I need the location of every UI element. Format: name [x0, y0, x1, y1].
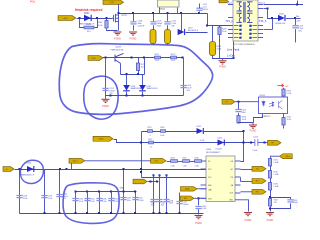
resistor R221	[148, 130, 153, 133]
svg-text:51.0k: 51.0k	[287, 93, 292, 95]
wire C236 column	[99, 192, 101, 214]
svg-text:PGND: PGND	[130, 39, 137, 41]
node O	[110, 95, 112, 97]
wire secondary top to right edge	[264, 4, 304, 6]
net L+Opt	[227, 53, 235, 57]
label D214	[27, 162, 33, 164]
ground PGND inner	[105, 96, 107, 99]
svg-text:D206: D206	[279, 13, 285, 15]
port P207	[268, 140, 282, 145]
value 10.0k	[160, 135, 164, 137]
label R231 1.00M	[273, 160, 278, 164]
svg-text:1.00k: 1.00k	[183, 165, 187, 167]
label C229 4.7uF	[48, 196, 53, 200]
svg-text:16: 16	[250, 33, 252, 35]
wire rail corner down	[207, 14, 209, 26]
svg-text:TX4_p: TX4_p	[225, 20, 233, 23]
zener diode D209	[139, 85, 146, 91]
diode D207	[178, 29, 185, 35]
svg-text:PGND: PGND	[245, 220, 252, 222]
label C214 2.2uF 50V	[187, 85, 193, 92]
label D207 B4148-13-F	[188, 27, 199, 32]
label R227	[148, 139, 152, 141]
wire port to D201 network	[77, 18, 113, 20]
svg-text:Nsp1: Nsp1	[227, 3, 233, 5]
node AG	[269, 196, 271, 198]
label R213 31.6k	[217, 46, 222, 51]
label R233 1.00M	[273, 184, 278, 188]
svg-text:24V: 24V	[297, 21, 301, 23]
label Q202	[122, 14, 128, 16]
svg-text:10.0k: 10.0k	[160, 135, 164, 137]
node X	[66, 168, 68, 170]
capacitor C240	[150, 200, 156, 202]
capacitor C229	[41, 196, 47, 198]
node P210a	[150, 181, 152, 183]
resistor R231	[268, 159, 271, 167]
svg-text:D201: D201	[84, 13, 90, 15]
label R211	[155, 54, 159, 56]
wire D206 cathode to node F	[286, 18, 301, 20]
value 1.00k b	[183, 165, 187, 167]
svg-text:50V: 50V	[187, 90, 191, 92]
wire R225 to U203 pin4	[283, 97, 285, 98]
svg-text:SMAZ24-13-F: SMAZ24-13-F	[147, 87, 159, 90]
wire C238 column	[166, 175, 168, 213]
label R247 12k	[274, 200, 278, 204]
svg-text:R229: R229	[183, 158, 187, 160]
capacitor C237	[108, 199, 114, 201]
wire R207 bottom	[153, 44, 155, 46]
svg-text:22pF: 22pF	[169, 203, 173, 205]
svg-text:24Vc: 24Vc	[91, 58, 96, 60]
node E	[267, 8, 269, 10]
wire scl segs	[167, 161, 171, 163]
ground PGND under U204	[244, 213, 252, 216]
wire to C246	[271, 198, 291, 200]
label C240 100n	[151, 202, 155, 206]
label D208 MMAZ5240B	[131, 86, 142, 90]
node bank2b	[98, 212, 100, 214]
capacitor C236	[96, 199, 102, 201]
label R228	[171, 158, 175, 160]
node H	[105, 57, 107, 59]
value VOM1271	[262, 116, 272, 118]
label C208 440n 0.022uF	[138, 20, 146, 27]
wire base rail	[103, 57, 184, 59]
wire C213 bottom	[295, 29, 297, 42]
svg-text:2.2nF: 2.2nF	[253, 150, 259, 152]
wire R273 bottom	[138, 71, 140, 75]
svg-text:1.00k: 1.00k	[195, 165, 199, 167]
node bk21	[134, 191, 136, 193]
value 2.2nF	[253, 150, 259, 152]
svg-text:3.3uF: 3.3uF	[23, 198, 28, 200]
svg-text:R227: R227	[148, 139, 152, 141]
port P210 small	[133, 179, 147, 184]
wire R273 top	[138, 58, 140, 64]
resistor R212	[171, 56, 177, 59]
wire R208 bottom	[167, 44, 169, 46]
value 510	[87, 31, 91, 33]
svg-text:E41-2M: E41-2M	[216, 149, 223, 151]
node bank3t	[110, 191, 112, 193]
svg-text:D214: D214	[27, 162, 33, 164]
wire +5V to R225	[283, 88, 285, 90]
wire collector rail	[121, 74, 145, 76]
node AC	[153, 174, 155, 176]
diode D206	[278, 15, 285, 21]
svg-text:PGND: PGND	[102, 106, 109, 108]
label R229	[183, 158, 187, 160]
svg-text:In: In	[6, 169, 8, 171]
label C241 100n	[161, 202, 165, 206]
net TX4_S	[259, 20, 267, 23]
wire row VCC	[142, 177, 207, 179]
wire C246 bottom	[271, 203, 291, 208]
label C210 2.2uF 50V	[171, 20, 177, 27]
resistor R226	[161, 130, 166, 133]
capacitor C214	[180, 86, 186, 88]
wire cap bank bottom rail	[20, 213, 204, 215]
node bk20	[123, 191, 125, 193]
resistor R207 (power)	[150, 30, 156, 44]
wire P205 to U203	[235, 101, 259, 103]
U204 left pin stubs	[201, 161, 207, 198]
wire T201 right pin stubs	[258, 5, 263, 38]
U204 pin names	[208, 161, 234, 202]
label C234 4.7uF	[79, 199, 83, 203]
svg-text:510: 510	[87, 31, 91, 33]
port P215	[252, 179, 266, 184]
wire pin stub3	[240, 178, 242, 182]
capacitor C242	[195, 207, 201, 209]
svg-text:40.2: 40.2	[171, 60, 175, 62]
port P211 SCL	[151, 158, 167, 163]
resistor R228	[171, 160, 178, 163]
svg-text:470n: 470n	[127, 200, 131, 202]
wire D207 to node D	[186, 32, 208, 34]
port P209	[69, 158, 85, 163]
node C241b	[159, 212, 161, 214]
label C242 2.2nF	[202, 206, 207, 210]
label C223	[253, 136, 259, 138]
wire zener D209 branch	[142, 75, 144, 86]
node C240b	[153, 212, 155, 214]
node top right	[296, 4, 298, 6]
node R row A-vert	[243, 130, 245, 132]
wire branch up to D206 net	[272, 19, 274, 30]
wire C204 column	[123, 170, 125, 214]
node I	[131, 57, 133, 59]
wire node E down	[268, 9, 279, 19]
svg-text:50V: 50V	[298, 30, 302, 32]
svg-text:PGND: PGND	[114, 39, 121, 41]
svg-text:29: 29	[240, 29, 242, 31]
zener diode D208	[123, 85, 130, 91]
node rail-C211	[198, 12, 200, 14]
label R225 51.0k	[287, 91, 292, 96]
svg-text:37: 37	[240, 37, 242, 39]
svg-text:11.0k: 11.0k	[222, 31, 227, 33]
svg-text:R230: R230	[195, 158, 199, 160]
label R202	[86, 24, 92, 26]
svg-text:40.2: 40.2	[155, 60, 159, 62]
wire cap column 1	[19, 170, 21, 214]
port P206	[93, 136, 113, 141]
value 40.2	[171, 60, 175, 62]
svg-text:R211: R211	[155, 54, 159, 56]
value HDC2080DMBT	[206, 152, 221, 154]
node C junction	[106, 17, 108, 19]
wire U204 pin to port3	[241, 191, 253, 193]
resistor R273	[136, 63, 139, 71]
wire row A down to U204 pin8	[241, 132, 244, 162]
net GND small	[120, 188, 125, 190]
node rail-drain	[118, 12, 120, 14]
svg-text:VOM1271: VOM1271	[262, 116, 272, 118]
resistor R202	[84, 26, 94, 29]
wire P213 to pin	[194, 197, 206, 199]
wire C209 to R207	[153, 25, 155, 29]
value PMBT5401TA	[111, 49, 124, 52]
svg-text:R228: R228	[171, 158, 175, 160]
label C205 0.22uF	[138, 198, 143, 202]
label R230	[195, 158, 199, 160]
wire C242 branch	[198, 198, 200, 205]
svg-text:12k: 12k	[274, 202, 277, 204]
label C209 100pF 630V	[157, 20, 163, 27]
wire seg3	[190, 161, 195, 163]
node B junction	[96, 17, 98, 19]
value 2.2	[150, 146, 152, 148]
capacitor C228	[16, 196, 22, 198]
node S row B-vert	[243, 142, 245, 144]
annotation ink circle around D214	[20, 160, 43, 183]
label R209 11.0k	[222, 29, 227, 33]
node C239b	[179, 212, 181, 214]
wire U203 pin3 down	[283, 114, 285, 118]
node W	[59, 168, 61, 170]
value 0	[150, 135, 151, 137]
svg-text:PGND: PGND	[219, 66, 226, 68]
wire node J down	[144, 58, 146, 75]
value 1.00k x3	[171, 165, 175, 167]
wire sec pin3 branch	[264, 29, 273, 31]
svg-text:MMAZ5240B: MMAZ5240B	[131, 87, 142, 90]
transformer T201 windings	[237, 2, 253, 23]
label U204	[206, 149, 212, 151]
capacitor C238	[163, 200, 169, 202]
svg-text:Q202: Q202	[122, 14, 128, 16]
wire U204 GND down	[241, 200, 249, 212]
svg-text:HDC2080DMBT: HDC2080DMBT	[206, 152, 221, 154]
wire P212 to pin	[197, 188, 206, 190]
value E41-2M	[216, 149, 223, 151]
wire node D to transformer	[208, 25, 234, 27]
svg-text:24Vin: 24Vin	[99, 139, 104, 141]
node bank1t	[86, 191, 88, 193]
svg-text:1.00M: 1.00M	[273, 162, 278, 164]
transformer T201 lower pins	[234, 25, 257, 39]
capacitor C204	[120, 198, 126, 200]
optocoupler U203 internals	[262, 100, 283, 109]
svg-text:U203: U203	[260, 95, 266, 97]
svg-text:SCL1: SCL1	[73, 161, 79, 163]
label C236 4.7uF	[102, 199, 106, 203]
wire R209 top stub	[219, 26, 221, 28]
node bank0t	[75, 191, 77, 193]
svg-text:D212: D212	[197, 126, 203, 128]
resistor R225	[282, 89, 285, 96]
port P202 top supply	[103, 0, 124, 4]
svg-text:4.7uF: 4.7uF	[114, 201, 118, 203]
label 2AQ4	[160, 8, 166, 11]
wire U203 pin2 down	[254, 114, 263, 123]
power port +5V0 (red)	[278, 84, 284, 87]
wire U204 pin HE to port	[241, 169, 253, 171]
node U	[140, 171, 142, 173]
wire U201 pin1 stub	[159, 8, 161, 14]
node bank0b	[75, 212, 77, 214]
node Q	[264, 142, 266, 144]
port P201 +24V input	[58, 16, 76, 21]
net Nsec1	[259, 3, 266, 5]
label R221	[148, 127, 152, 129]
svg-text:4.7uF: 4.7uF	[48, 198, 53, 200]
svg-text:B4148-13-F: B4148-13-F	[188, 30, 199, 32]
svg-text:10.0k: 10.0k	[98, 25, 103, 27]
label PCT1742D (DSE64G)	[233, 44, 255, 46]
resistor R209	[218, 27, 221, 35]
node J2	[182, 57, 184, 59]
wire C235 column	[87, 192, 89, 214]
wire top right corner stub	[297, 1, 299, 5]
capacitor C232	[56, 195, 62, 197]
svg-text:SDA: SDA	[185, 188, 190, 191]
capacitor C211	[196, 8, 202, 10]
svg-text:820uF: 820uF	[203, 9, 209, 11]
svg-text:10.0k: 10.0k	[287, 119, 291, 121]
capacitor C205	[132, 198, 138, 200]
node F	[294, 17, 296, 19]
port P203 top edge	[219, 0, 229, 3]
wire R213 bottom to node	[213, 56, 234, 59]
wire D212 to U204 branch	[203, 131, 243, 133]
svg-text:R221: R221	[148, 127, 152, 129]
label R273 10.0k	[141, 64, 146, 69]
label R206 10.0k	[98, 22, 104, 27]
node bk21b	[134, 212, 136, 214]
node K	[126, 73, 128, 75]
wire R224 to ground rail	[239, 123, 254, 124]
capacitor C239	[176, 202, 182, 204]
label C228 3.3uF	[23, 196, 28, 200]
wire long mid rail	[67, 169, 207, 171]
wire R209 down to node	[219, 35, 221, 59]
label C238 22pF	[169, 200, 173, 204]
svg-text:PGND: PGND	[267, 220, 274, 222]
annotation ink small circle	[84, 76, 118, 119]
svg-text:4.7uF: 4.7uF	[79, 201, 83, 203]
svg-text:R212: R212	[171, 54, 176, 56]
label D209 SMAZ24-13-F	[147, 86, 159, 90]
wire cap column 3	[59, 170, 61, 214]
svg-text:14: 14	[250, 29, 252, 31]
capacitor C246	[287, 200, 293, 202]
svg-text:R226: R226	[160, 127, 164, 129]
wire bottom input	[15, 169, 67, 171]
wire cap bank top rail	[76, 191, 137, 193]
svg-text:PGd: PGd	[30, 1, 36, 4]
svg-text:TX4_S: TX4_S	[259, 20, 267, 23]
svg-text:U204: U204	[206, 149, 212, 151]
port P216	[252, 189, 266, 194]
diode D212	[197, 128, 204, 134]
svg-text:630V: 630V	[157, 25, 162, 27]
wire C234 column	[75, 192, 77, 214]
node Q2	[250, 142, 252, 144]
port P208	[3, 167, 14, 172]
node AD	[159, 174, 161, 176]
wire Q203 collector down	[120, 63, 122, 74]
port P217 left-tip	[279, 154, 292, 159]
capacitor C235	[84, 199, 90, 201]
node bk20b	[123, 212, 125, 214]
svg-text:4.7uF: 4.7uF	[90, 201, 94, 203]
wire sec pin to node E	[264, 8, 268, 10]
resistor R222	[282, 118, 285, 126]
capacitor C212	[102, 88, 108, 90]
net TX4_p	[225, 20, 233, 23]
label C212 100uF 25V	[109, 88, 115, 95]
voltage regulator U201	[158, 0, 180, 7]
node T	[140, 142, 142, 144]
resistor R213 (power)	[210, 42, 216, 56]
label R232 1.00M	[273, 172, 278, 176]
node P	[238, 101, 240, 103]
wire C240 column	[153, 175, 155, 213]
wire R222 bottom	[283, 126, 285, 129]
wire Q202 drain to port	[118, 4, 120, 15]
label C239 2700uF	[183, 202, 189, 206]
diode D201	[84, 15, 91, 21]
wire left rail of D201/R202	[80, 19, 85, 28]
label D206	[279, 13, 285, 15]
transformer T201	[233, 0, 258, 41]
node bank1b	[86, 212, 88, 214]
resistor R211	[155, 56, 161, 59]
svg-text:0.022uF: 0.022uF	[138, 25, 146, 27]
port P205	[222, 99, 235, 104]
transistor Q203	[115, 53, 124, 63]
svg-text:+24V: +24V	[63, 18, 68, 20]
label C235 4.7uF	[90, 199, 94, 203]
wire P210 row	[148, 181, 159, 183]
svg-text:Rly: Rly	[296, 16, 300, 18]
svg-text:470pF: 470pF	[293, 202, 299, 204]
svg-text:25: 25	[240, 25, 242, 27]
label U203	[260, 95, 266, 97]
wire D207 branch	[181, 14, 183, 33]
svg-text:10.0k: 10.0k	[242, 119, 246, 121]
net 24V	[297, 21, 301, 23]
capacitor C234	[72, 199, 78, 201]
node P210b	[156, 181, 158, 183]
svg-text:33: 33	[240, 33, 242, 35]
resistor R247	[268, 199, 271, 207]
svg-text:+5V: +5V	[285, 86, 289, 88]
